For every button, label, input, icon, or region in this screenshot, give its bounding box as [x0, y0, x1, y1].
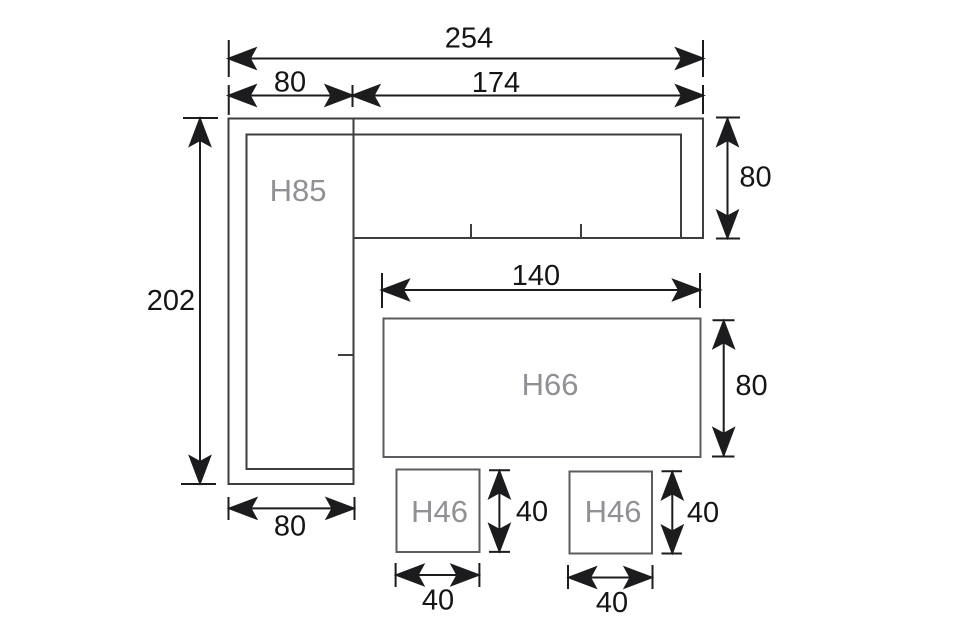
table H66	[384, 319, 701, 458]
dimension 254	[229, 40, 703, 77]
dimension 80 (bottom of chaise)	[229, 497, 355, 520]
svg-text:40: 40	[516, 496, 548, 528]
svg-text:40: 40	[687, 497, 719, 529]
stool 2	[570, 472, 653, 554]
svg-text:80: 80	[274, 511, 306, 543]
seat tick 3	[338, 354, 353, 356]
svg-text:H85: H85	[270, 173, 327, 208]
sofa section divider	[353, 119, 355, 239]
svg-text:254: 254	[445, 23, 493, 55]
dimension 40 (right of stool 1)	[489, 470, 510, 552]
svg-text:174: 174	[472, 67, 520, 99]
dimension 40 (right of stool 2)	[662, 471, 683, 553]
sofa outer outline	[229, 119, 704, 485]
svg-text:202: 202	[147, 285, 195, 317]
dimension 174 (top right)	[353, 85, 704, 114]
svg-text:H46: H46	[411, 494, 468, 529]
dimension 40 (below stool 1)	[396, 563, 480, 587]
seat tick 2	[580, 224, 582, 238]
svg-text:140: 140	[512, 260, 560, 292]
stool 1	[397, 470, 480, 553]
dimension 80 (right of table)	[712, 320, 735, 456]
svg-text:80: 80	[735, 370, 767, 402]
dimension 140 (above table)	[382, 273, 700, 308]
dimension 80 (right of sofa bar)	[716, 118, 740, 239]
dimension 202 (left)	[181, 118, 218, 484]
svg-text:40: 40	[596, 587, 628, 619]
svg-text:H66: H66	[522, 367, 579, 402]
dimension 40 (below stool 2)	[568, 565, 653, 589]
svg-text:80: 80	[739, 162, 771, 194]
svg-text:40: 40	[422, 585, 454, 617]
svg-text:80: 80	[274, 67, 306, 99]
sofa inner backrest line	[247, 135, 682, 470]
dimension 80 (top left)	[229, 85, 353, 115]
seat tick 1	[470, 224, 472, 238]
svg-text:H46: H46	[585, 494, 642, 529]
